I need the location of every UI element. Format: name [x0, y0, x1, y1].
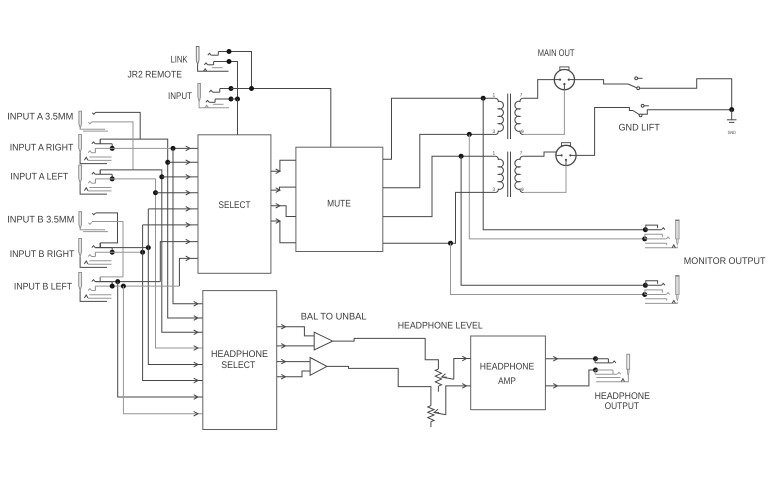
- junction XFMR1 pin1 branch: [481, 96, 486, 101]
- jack INPUT B RIGHT: [79, 238, 82, 256]
- arrow HPS o4: [281, 374, 285, 379]
- jack J-INPUT tip contact: [209, 90, 212, 92]
- jack J-LINK tip contact: [208, 53, 211, 55]
- junction LINK tip: [227, 49, 232, 54]
- svg-text:INPUT A LEFT: INPUT A LEFT: [10, 172, 68, 183]
- svg-text:1: 1: [493, 151, 496, 157]
- connector XLR1: [560, 67, 569, 70]
- arrow HP-SELECT in8: [194, 411, 198, 416]
- jack J-INPUT ring contact: [206, 100, 209, 102]
- svg-text:LINK: LINK: [170, 54, 187, 65]
- svg-text:GND: GND: [728, 130, 737, 135]
- op-amp buffer U2: [310, 358, 327, 376]
- wire monitor2 tip feed: [461, 156, 645, 285]
- junction AL drop: [110, 176, 115, 181]
- wire SELECT-MUTE 4: [271, 221, 296, 243]
- wire HPA out1: [545, 358, 595, 360]
- potentiometer VR1: [435, 369, 441, 386]
- svg-text:MAIN OUT: MAIN OUT: [538, 48, 575, 59]
- junction XFMR1 pin3 branch: [467, 132, 472, 137]
- jack MONITOR OUT 2: [676, 276, 680, 295]
- junction AR signal bus: [171, 146, 176, 151]
- junction monitor2 ring: [642, 292, 647, 297]
- svg-text:INPUT B 3.5MM: INPUT B 3.5MM: [7, 214, 74, 225]
- block HEADPHONE AMP: [471, 336, 546, 410]
- svg-text:AMP: AMP: [498, 376, 516, 387]
- arrow HPA o2: [553, 384, 557, 389]
- arrow HP-SELECT in6: [194, 378, 198, 383]
- arrow SM4: [276, 219, 280, 224]
- junction monitor1 tip: [643, 227, 648, 232]
- wire monitor1 tip feed: [483, 98, 645, 230]
- junction INPUT tip: [229, 86, 234, 91]
- jack INPUT A RIGHT: [79, 135, 82, 153]
- jack J-LINK sleeve: [198, 65, 229, 72]
- wire MUTE out3 to XFMR2 pin1: [383, 156, 495, 216]
- svg-text:1: 1: [493, 93, 496, 99]
- junction BR tip bus: [146, 245, 151, 250]
- jack INPUT A 3.5MM: [79, 111, 82, 128]
- junction LINK ring: [227, 59, 232, 64]
- wire XFMR1 pin7 to XLR1: [523, 80, 554, 99]
- junction BL ring bus: [121, 284, 126, 289]
- wire monitor1 ring feed: [469, 134, 644, 239]
- junction BL ring drop: [110, 284, 115, 289]
- junction INPUT tip / LINK tip: [249, 86, 254, 91]
- wire BR ring to SELECT a6: [143, 224, 198, 226]
- arrow HPS o3: [281, 359, 285, 364]
- junction AL signal branch: [153, 190, 158, 195]
- wire XLR2 to switch2: [576, 108, 633, 156]
- arrow SELECT a7: [186, 239, 190, 244]
- wire AR normal line: [100, 139, 203, 318]
- wire INPUT ring join: [231, 98, 238, 100]
- transformer T2: [495, 156, 504, 192]
- wire bus BL ring: [123, 286, 202, 414]
- wire BR ring line: [95, 251, 142, 253]
- jack HEADPHONE OUTPUT: [627, 354, 630, 369]
- wire HPS out4: [277, 371, 310, 377]
- junction INPUT ring a: [229, 97, 234, 102]
- jack INPUT B LEFT: [79, 272, 82, 290]
- junction monitor1 ring: [642, 236, 647, 241]
- junction XFMR2 pin1 branch: [459, 154, 464, 159]
- wire B3.5 tip to BR normal: [96, 213, 118, 243]
- arrow HP-SELECT in7: [194, 395, 198, 400]
- svg-text:OUTPUT: OUTPUT: [605, 401, 640, 412]
- arrow HP-SELECT in4: [194, 346, 198, 351]
- jack J-LINK plug: [196, 47, 199, 65]
- arrow SM1: [276, 169, 280, 174]
- svg-text:INPUT A 3.5MM: INPUT A 3.5MM: [7, 111, 73, 122]
- junction monitor2 tip: [643, 283, 648, 288]
- wire XLR1 to switch1: [575, 80, 628, 84]
- wire switch2 to gnd: [642, 110, 732, 114]
- wire HPS out2: [277, 345, 315, 347]
- connector XLR2: [561, 143, 570, 146]
- svg-text:3: 3: [493, 187, 496, 193]
- block MUTE: [296, 147, 383, 251]
- svg-text:BAL TO UNBAL: BAL TO UNBAL: [301, 312, 367, 323]
- wire AR signal line: [95, 147, 173, 149]
- wire HPS out1: [277, 327, 315, 336]
- arrow SELECT a5: [186, 207, 190, 212]
- arrow SELECT a6: [186, 223, 190, 228]
- jack INPUT A LEFT: [79, 165, 82, 183]
- wire SELECT-MUTE 1: [271, 160, 296, 171]
- junction AR drop: [110, 146, 115, 151]
- wire BR tip line: [95, 247, 148, 249]
- wire INPUT tip to MUTE: [231, 89, 331, 148]
- arrow SELECT a1: [186, 146, 190, 151]
- wire AL signal line: [95, 179, 202, 348]
- wire BR normal tick: [99, 243, 101, 248]
- svg-text:HEADPHONE LEVEL: HEADPHONE LEVEL: [398, 321, 484, 332]
- wire VR2 wiper to HP amp: [446, 386, 471, 415]
- svg-text:INPUT B LEFT: INPUT B LEFT: [14, 282, 72, 293]
- arrow SM3: [276, 203, 280, 208]
- block HEADPHONE SELECT: [203, 291, 277, 430]
- svg-text:INPUT A RIGHT: INPUT A RIGHT: [10, 142, 74, 153]
- arrow SELECT a3: [186, 175, 190, 180]
- wire bus AR to HP a1: [173, 148, 203, 303]
- wire A3.5 ring to AL normal: [92, 122, 133, 170]
- svg-text:MUTE: MUTE: [327, 199, 351, 210]
- wire AL normal to SELECT a3: [162, 176, 198, 178]
- svg-text:7: 7: [520, 93, 523, 99]
- wire AR signal to SELECT a1: [173, 147, 198, 149]
- wire A3.5 tip to AR normal: [96, 112, 141, 139]
- switch SW1: [628, 84, 637, 88]
- svg-text:SELECT: SELECT: [218, 200, 250, 211]
- wire MUTE out4 to XFMR2 pin3: [383, 192, 495, 243]
- wire LINK tip to INPUT tip: [229, 52, 252, 89]
- svg-text:GND LIFT: GND LIFT: [619, 123, 660, 134]
- wire BL tip to SELECT a7: [160, 242, 198, 282]
- arrow HP-SELECT in2: [194, 316, 198, 321]
- arrow SELECT a2: [186, 160, 190, 165]
- arrow HPS o1: [281, 324, 285, 329]
- svg-text:7: 7: [520, 151, 523, 157]
- jack MONITOR OUT 1: [676, 220, 680, 239]
- wire SELECT-MUTE 2: [271, 187, 296, 190]
- svg-text:3: 3: [493, 129, 496, 135]
- arrow HP-SELECT in5: [194, 362, 198, 367]
- wire bus BR tip: [148, 209, 203, 365]
- svg-text:SELECT: SELECT: [221, 360, 255, 371]
- svg-text:MONITOR OUTPUT: MONITOR OUTPUT: [684, 256, 766, 267]
- switch SW2: [633, 111, 639, 115]
- arrow HP-SELECT in3: [194, 330, 198, 335]
- jack J-LINK ring contact: [204, 63, 207, 65]
- wire MUTE out2 to XFMR1 pin3: [383, 134, 495, 187]
- jack INPUT B 3.5MM: [79, 212, 82, 229]
- transformer T1: [495, 98, 504, 134]
- wire XFMR2 pin7 to XLR2: [523, 152, 556, 156]
- wire MUTE out1 to XFMR1 pin1: [383, 98, 495, 159]
- svg-text:HEADPHONE: HEADPHONE: [480, 362, 534, 373]
- arrow HPS o2: [281, 344, 285, 349]
- junction HP jack ring: [593, 368, 598, 373]
- junction HP jack tip: [593, 356, 598, 361]
- wire LINK ring down: [229, 62, 238, 100]
- wire U1 out to pot1: [333, 338, 439, 369]
- wire BL ring to SELECT a8: [179, 258, 198, 286]
- wire BL ring line: [95, 285, 179, 287]
- wire bus BL tip: [118, 282, 203, 397]
- wire HPS out3: [277, 361, 310, 363]
- wire switch1 to gnd: [640, 79, 732, 110]
- wire monitor2 ring feed: [451, 243, 645, 294]
- wire B3.5 ring to BL normal: [92, 222, 123, 277]
- junction BR drop: [110, 250, 115, 255]
- wire INPUT ring to SELECT: [237, 99, 239, 135]
- arrow HPA in1: [462, 356, 466, 361]
- potentiometer VR2: [428, 406, 434, 422]
- wire VR1 wiper to HP amp: [454, 359, 471, 380]
- junction INPUT ring b: [235, 97, 240, 102]
- wire BL tip line: [95, 281, 160, 283]
- svg-text:INPUT: INPUT: [168, 91, 192, 102]
- wire XLR2 pin1 to XFMR2 pin9: [523, 166, 566, 193]
- svg-text:JR2 REMOTE: JR2 REMOTE: [127, 70, 182, 81]
- junction AR normal branch: [165, 160, 170, 165]
- junction BR ring bus: [140, 250, 145, 255]
- junction MUTE out4 branch: [448, 241, 453, 246]
- wire U2 out to pot2: [327, 366, 431, 405]
- wire SELECT-MUTE 3: [271, 206, 296, 217]
- junction AL normal branch: [159, 174, 164, 179]
- wire XLR1 pin1 to XFMR1 pin9: [523, 90, 564, 135]
- arrow SELECT a4: [186, 190, 190, 195]
- wire HPA out2: [545, 370, 595, 386]
- wire bus BR ring: [143, 225, 203, 381]
- wire AL signal to SELECT a4: [156, 192, 199, 194]
- arrow SELECT a8: [186, 256, 190, 261]
- wire AL normal line: [100, 170, 203, 332]
- junction BL tip bus: [115, 279, 120, 284]
- arrow SM2: [276, 188, 280, 193]
- arrow HPA o1: [553, 356, 557, 361]
- wire AR normal to SELECT a2: [168, 161, 198, 163]
- svg-text:INPUT B RIGHT: INPUT B RIGHT: [10, 249, 75, 260]
- jack J-INPUT sleeve: [199, 102, 229, 108]
- ground symbol: [731, 110, 733, 120]
- op-amp buffer U1: [314, 332, 332, 350]
- arrow HPA in2: [462, 384, 466, 389]
- jack J-INPUT plug: [198, 84, 201, 102]
- block SELECT: [198, 135, 271, 273]
- wire BL normal tick: [99, 277, 101, 282]
- junction gnd: [729, 107, 734, 112]
- svg-text:HEADPHONE: HEADPHONE: [211, 349, 268, 360]
- arrow HP-SELECT in1: [194, 301, 198, 306]
- wire BR tip to SELECT a5: [148, 208, 198, 210]
